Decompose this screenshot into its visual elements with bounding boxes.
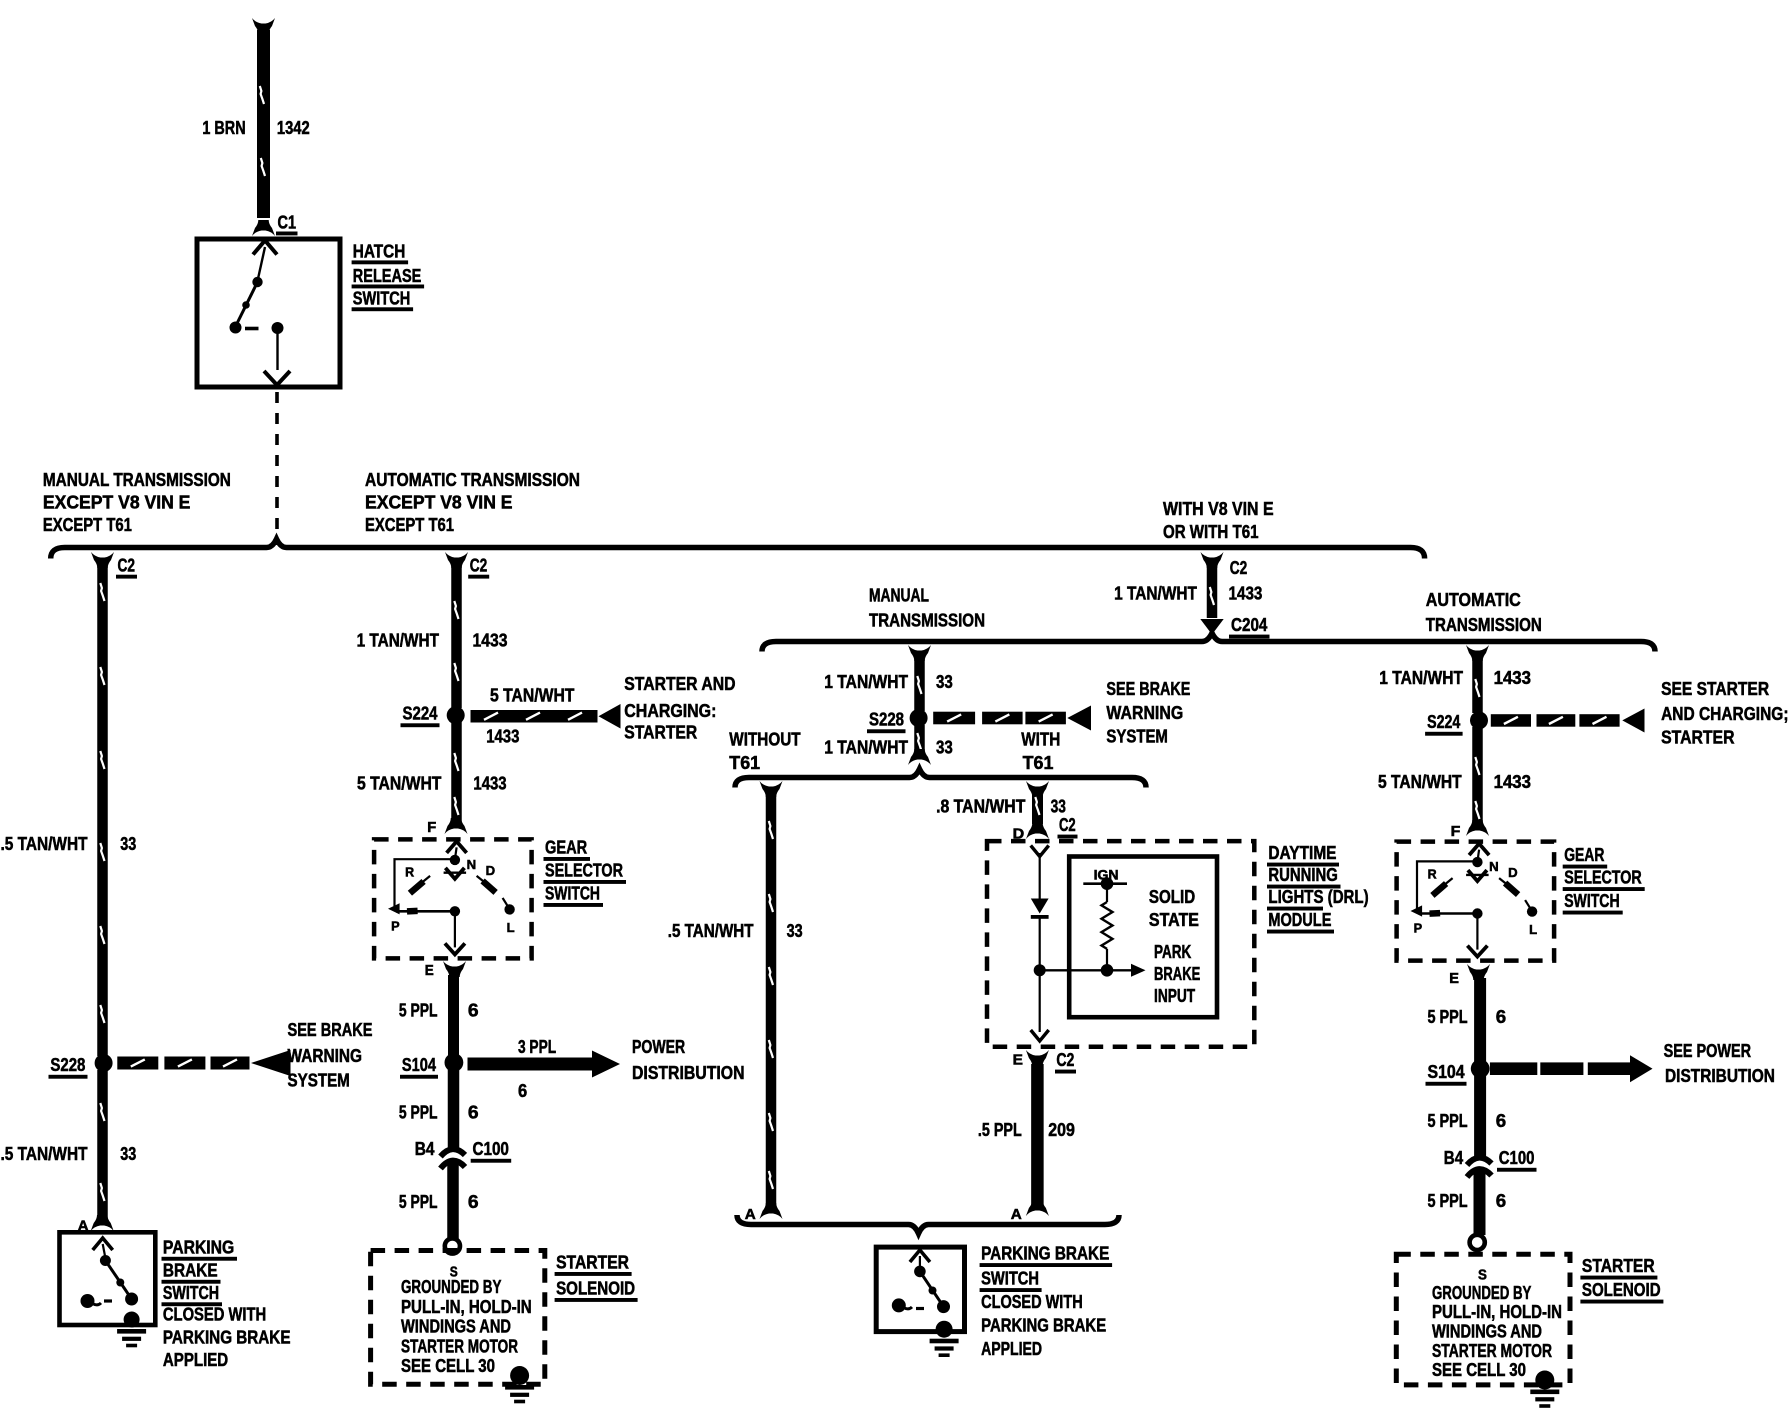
svg-text:EXCEPT T61: EXCEPT T61 [43,514,132,535]
label SEE BRAKE WARNING SYSTEM (middle) [1106,678,1190,747]
svg-text:PARK: PARK [1154,941,1192,962]
svg-text:EXCEPT V8 VIN E: EXCEPT V8 VIN E [43,492,191,513]
wire 5 PPL 6 from gear selector E (right) [1467,964,1490,1063]
svg-text:33: 33 [120,1143,136,1164]
svg-text:SEE BRAKE: SEE BRAKE [1106,678,1190,699]
connector C100 pin B4 (right) [1444,1147,1537,1177]
svg-text:SEE STARTER: SEE STARTER [1661,678,1769,699]
connector C2 at DRL pin D [1058,814,1078,839]
svg-text:S224: S224 [1427,711,1461,732]
svg-text:E: E [425,963,434,979]
svg-text:WARNING: WARNING [288,1045,363,1066]
brace bus without/with T61 [735,769,1146,788]
svg-text:1 TAN/WHT: 1 TAN/WHT [1379,667,1463,688]
svg-text:L: L [1529,922,1537,937]
svg-text:WINDINGS AND: WINDINGS AND [401,1316,511,1337]
svg-text:1433: 1433 [486,726,519,747]
svg-text:EXCEPT T61: EXCEPT T61 [365,514,454,535]
connector C1 [276,212,298,236]
svg-text:1433: 1433 [473,630,508,651]
connector C2 left branch [91,552,137,579]
splice S228 (middle) [867,709,928,734]
svg-text:S104: S104 [1428,1061,1466,1082]
svg-text:F: F [427,820,436,836]
label HATCH RELEASE SWITCH [352,241,425,311]
svg-text:5 TAN/WHT: 5 TAN/WHT [1378,771,1462,792]
terminal ring at starter solenoid S (left) [445,1238,460,1253]
svg-text:WITHOUT: WITHOUT [729,729,800,750]
label GEAR SELECTOR SWITCH (left) [544,837,627,907]
svg-text:GEAR: GEAR [545,837,587,858]
ground at starter solenoid (right) [1530,1371,1559,1408]
svg-text:A: A [1011,1207,1023,1223]
svg-text:1 TAN/WHT: 1 TAN/WHT [824,737,908,758]
label PARKING BRAKE SWITCH CLOSED WITH PARKING BRAKE APPLIED (middle) [980,1243,1113,1360]
svg-text:E: E [1449,971,1459,987]
brace bus transmission options [51,539,1425,559]
label 1 TAN/WHT 33 upper (middle) [824,671,953,692]
svg-text:SOLID: SOLID [1149,886,1195,907]
svg-text:SELECTOR: SELECTOR [545,860,623,881]
label WITH T61 [1021,729,1060,774]
svg-text:CLOSED WITH: CLOSED WITH [163,1304,266,1325]
brace bus manual vs automatic (V8/T61) [762,633,1655,652]
svg-text:S224: S224 [403,703,439,724]
svg-text:1433: 1433 [1229,583,1263,604]
svg-text:MODULE: MODULE [1268,909,1331,930]
label .8 TAN/WHT 33 [936,796,1066,817]
label 5 PPL 6 lower (left) [399,1191,479,1212]
svg-text:MANUAL TRANSMISSION: MANUAL TRANSMISSION [43,469,231,490]
label .5 TAN/WHT 33 lower [1,1143,137,1164]
label POWER DISTRIBUTION [632,1036,745,1083]
svg-text:R: R [1428,867,1438,882]
svg-text:STARTER: STARTER [1582,1255,1655,1276]
svg-text:OR WITH T61: OR WITH T61 [1163,521,1259,542]
svg-text:RELEASE: RELEASE [353,265,422,286]
gear selector switch SW3 (left) [374,839,531,958]
svg-text:C2: C2 [118,555,136,576]
label SEE BRAKE WARNING SYSTEM (left) [288,1019,373,1091]
wire 5 PPL 6 from gear selector E [443,961,466,1057]
wire dashed from hatch release switch to options brace [275,392,279,545]
label .5 TAN/WHT 33 (without T61) [668,920,803,941]
svg-text:DAYTIME: DAYTIME [1268,842,1336,863]
wire 5 PPL 6 middle segment (left) [448,1068,460,1148]
svg-text:33: 33 [936,737,953,758]
svg-text:EXCEPT V8 VIN E: EXCEPT V8 VIN E [365,492,513,513]
connector C204 [1229,614,1270,639]
svg-text:1342: 1342 [277,117,310,138]
svg-text:6: 6 [468,1102,479,1123]
svg-text:5 TAN/WHT: 5 TAN/WHT [357,773,441,794]
label GEAR SELECTOR SWITCH (right) [1563,844,1645,915]
svg-text:C2: C2 [1059,814,1076,835]
label .5 TAN/WHT 33 upper [1,833,137,854]
svg-text:STARTER MOTOR: STARTER MOTOR [401,1336,518,1357]
svg-text:S228: S228 [50,1054,85,1075]
svg-text:SELECTOR: SELECTOR [1564,867,1642,888]
wire .5 TAN/WHT 33 lower segment [91,1070,114,1231]
svg-text:B4: B4 [1444,1147,1464,1168]
wire 1 BRN 1342 feed to hatch release switch [252,18,275,236]
svg-text:.8 TAN/WHT: .8 TAN/WHT [936,796,1025,817]
svg-text:AND CHARGING;: AND CHARGING; [1661,703,1788,724]
svg-text:PULL-IN, HOLD-IN: PULL-IN, HOLD-IN [401,1296,532,1317]
svg-text:STARTER AND: STARTER AND [624,673,735,694]
svg-text:APPLIED: APPLIED [981,1338,1042,1359]
svg-text:SWITCH: SWITCH [981,1268,1039,1289]
label AUTOMATIC TRANSMISSION (bus2) [1426,589,1542,635]
svg-text:SYSTEM: SYSTEM [1106,726,1168,747]
label MANUAL TRANSMISSION EXCEPT V8 VIN E EXCEPT T61 [43,469,231,535]
svg-text:RUNNING: RUNNING [1268,864,1337,885]
svg-text:WARNING: WARNING [1106,702,1183,723]
svg-text:C2: C2 [1230,557,1248,578]
svg-text:R: R [405,864,415,879]
svg-text:1 BRN: 1 BRN [202,117,245,138]
label .5 PPL 209 [978,1119,1075,1140]
svg-text:INPUT: INPUT [1154,985,1195,1006]
connector C2 with V8 VIN E drop [1201,552,1248,578]
svg-text:5 PPL: 5 PPL [399,1191,438,1212]
svg-text:C2: C2 [470,555,488,576]
starter solenoid (left) [371,1251,545,1385]
svg-text:C204: C204 [1231,614,1268,635]
label STARTER SOLENOID (right) [1580,1255,1663,1304]
label STARTER SOLENOID (left) [555,1252,638,1302]
svg-text:WITH: WITH [1021,729,1060,750]
svg-text:SEE BRAKE: SEE BRAKE [288,1019,373,1040]
svg-text:SWITCH: SWITCH [163,1282,219,1303]
svg-text:STARTER: STARTER [624,722,697,743]
wire .5 PPL 209 from DRL to bus4 [1026,1050,1049,1216]
svg-text:PULL-IN, HOLD-IN: PULL-IN, HOLD-IN [1432,1301,1562,1322]
splice S104 (left) [400,1053,463,1079]
label WITHOUT T61 [729,729,800,774]
svg-text:1 TAN/WHT: 1 TAN/WHT [1114,583,1197,604]
connector C2 at DRL pin E [1055,1049,1076,1074]
svg-text:6: 6 [1496,1110,1506,1131]
svg-text:GEAR: GEAR [1564,844,1604,865]
wire 5 TAN/WHT 1433 to gear selector (right) [1466,727,1489,836]
svg-text:C100: C100 [473,1138,509,1159]
wire 5 TAN/WHT 1433 to gear selector [445,722,468,834]
svg-text:SOLENOID: SOLENOID [1582,1279,1661,1300]
svg-text:.5 PPL: .5 PPL [978,1119,1022,1140]
splice S104 (right) [1426,1059,1490,1085]
parking brake switch SW2 (left) [60,1232,156,1347]
svg-text:APPLIED: APPLIED [163,1349,228,1370]
svg-text:N: N [1489,859,1499,874]
svg-text:T61: T61 [729,752,760,773]
svg-text:6: 6 [468,1000,479,1021]
svg-text:D: D [1508,865,1518,880]
wire 5 PPL 6 lower segment (left) [447,1160,459,1239]
svg-text:TRANSMISSION: TRANSMISSION [1426,614,1542,635]
label 5 TAN/WHT 1433 lower (right) [1378,771,1531,792]
label AUTOMATIC TRANSMISSION EXCEPT V8 VIN E EXCEPT T61 [365,469,580,535]
svg-text:T61: T61 [1023,752,1054,773]
svg-text:1433: 1433 [1494,667,1531,688]
svg-text:B4: B4 [415,1138,436,1159]
svg-text:AUTOMATIC TRANSMISSION: AUTOMATIC TRANSMISSION [365,469,580,490]
svg-text:5 PPL: 5 PPL [1428,1190,1468,1211]
svg-text:STARTER: STARTER [1661,727,1734,748]
wire 5 PPL 6 lower segment (right) [1474,1168,1486,1235]
gear selector switch SW5 (right) [1397,842,1555,961]
svg-text:C100: C100 [1499,1147,1535,1168]
label 1 TAN/WHT 33 lower (middle) [824,737,953,758]
brace bus to parking brake switch (middle) [737,1215,1119,1234]
svg-text:C1: C1 [278,212,297,233]
svg-text:STARTER MOTOR: STARTER MOTOR [1432,1340,1552,1361]
svg-text:SWITCH: SWITCH [353,288,411,309]
starter solenoid (right) [1396,1254,1570,1385]
label WITH V8 VIN E OR WITH T61 [1163,498,1274,542]
svg-text:1 TAN/WHT: 1 TAN/WHT [824,671,908,692]
wire to brake warning system (left) [117,1050,290,1076]
svg-text:E: E [1013,1053,1024,1069]
label STARTER AND CHARGING: STARTER [624,673,735,743]
svg-text:33: 33 [787,920,803,941]
svg-text:DISTRIBUTION: DISTRIBUTION [1665,1065,1775,1086]
svg-text:P: P [391,918,400,933]
label 5 PPL 6 middle (left) [399,1102,479,1123]
parking brake switch SW4 (middle) [876,1247,964,1357]
label 5 PPL 6 upper (right) [1428,1006,1507,1027]
svg-text:5 PPL: 5 PPL [399,1102,438,1123]
label 5 PPL 6 middle (right) [1428,1110,1507,1131]
label 5 TAN/WHT 1433 lower [357,773,507,794]
svg-text:3 PPL: 3 PPL [518,1036,556,1057]
svg-text:1433: 1433 [1494,771,1531,792]
svg-text:STATE: STATE [1149,909,1199,930]
svg-text:LIGHTS (DRL): LIGHTS (DRL) [1268,886,1368,907]
svg-text:GROUNDED BY: GROUNDED BY [1432,1282,1531,1303]
label SEE POWER DISTRIBUTION [1664,1040,1775,1086]
svg-text:L: L [507,920,515,935]
label 5 PPL 6 lower (right) [1428,1190,1507,1211]
svg-text:SEE CELL 30: SEE CELL 30 [1432,1359,1526,1380]
svg-text:PARKING BRAKE: PARKING BRAKE [981,1315,1106,1336]
svg-text:POWER: POWER [632,1036,685,1057]
label 1 TAN/WHT 1433 (right) [1379,667,1531,688]
wire 3 PPL 6 arrow to power distribution [468,1051,621,1078]
wire dashed arrow to power distribution (right) [1490,1055,1653,1082]
svg-text:1433: 1433 [473,773,506,794]
svg-text:CHARGING:: CHARGING: [624,700,716,721]
svg-text:HATCH: HATCH [353,241,406,262]
svg-text:D: D [486,863,496,878]
wire .5 TAN/WHT 33 upper segment [97,566,108,1056]
svg-text:SEE POWER: SEE POWER [1664,1040,1752,1061]
svg-text:.5 TAN/WHT: .5 TAN/WHT [1,833,88,854]
wire 1 TAN/WHT 1433 segment [451,566,462,708]
svg-text:DISTRIBUTION: DISTRIBUTION [632,1062,745,1083]
svg-text:.5 TAN/WHT: .5 TAN/WHT [668,920,754,941]
wire .8 TAN/WHT 33 with T61 branch [1026,781,1049,839]
svg-text:5 PPL: 5 PPL [1428,1006,1468,1027]
svg-text:BRAKE: BRAKE [163,1260,218,1281]
svg-text:WINDINGS AND: WINDINGS AND [1432,1321,1542,1342]
svg-text:TRANSMISSION: TRANSMISSION [869,610,985,631]
label MANUAL TRANSMISSION (bus2) [869,585,985,631]
svg-text:33: 33 [936,671,953,692]
svg-text:A: A [745,1207,757,1223]
svg-text:1 TAN/WHT: 1 TAN/WHT [357,630,439,651]
ground at starter solenoid (left) [505,1366,534,1403]
terminal ring at starter solenoid S (right) [1470,1235,1485,1250]
svg-text:MANUAL: MANUAL [869,585,929,606]
label 1 TAN/WHT 1433 [357,630,508,651]
svg-text:S228: S228 [869,709,904,730]
svg-text:5 PPL: 5 PPL [399,1000,438,1021]
wire to starter and charging (right) [1491,709,1645,733]
svg-text:CLOSED WITH: CLOSED WITH [981,1291,1083,1312]
wire .5 TAN/WHT 33 without T61 branch [760,781,783,1219]
svg-text:.5 TAN/WHT: .5 TAN/WHT [1,1143,88,1164]
label DAYTIME RUNNING LIGHTS (DRL) MODULE [1267,842,1369,934]
svg-text:AUTOMATIC: AUTOMATIC [1426,589,1521,610]
label SEE STARTER AND CHARGING; STARTER [1661,678,1788,748]
label PARKING BRAKE SWITCH CLOSED WITH PARKING BRAKE APPLIED (left) [162,1237,291,1371]
wire 1 TAN/WHT 33 lower (middle) [908,725,931,765]
svg-text:WITH V8 VIN E: WITH V8 VIN E [1163,498,1274,519]
svg-text:6: 6 [1496,1190,1506,1211]
svg-text:PARKING: PARKING [163,1237,234,1258]
daytime running lights DRL module U1 [987,841,1254,1047]
svg-text:SWITCH: SWITCH [545,883,600,904]
hatch release switch SW1 [197,239,340,387]
wire 5 PPL 6 middle segment (right) [1474,1074,1486,1156]
wire 1 TAN/WHT 1433 drop to C204 [1200,566,1223,635]
svg-text:6: 6 [1496,1006,1506,1027]
label 5 TAN/WHT above and 1433 below splice wire [486,685,574,747]
svg-text:P: P [1414,921,1423,936]
svg-text:6: 6 [468,1191,479,1212]
svg-text:GROUNDED BY: GROUNDED BY [401,1276,501,1297]
svg-text:6: 6 [518,1080,527,1101]
svg-text:C2: C2 [1056,1049,1074,1070]
svg-text:5 TAN/WHT: 5 TAN/WHT [490,685,574,706]
svg-text:SYSTEM: SYSTEM [288,1070,350,1091]
svg-text:F: F [1451,824,1461,840]
wire 1 TAN/WHT 1433 from bus2 (right) [1466,645,1489,713]
connector C2 automatic branch [445,552,489,579]
svg-text:5 PPL: 5 PPL [1428,1110,1468,1131]
svg-text:PARKING BRAKE: PARKING BRAKE [981,1243,1109,1264]
svg-text:STARTER: STARTER [556,1252,629,1273]
splice S228 [49,1054,113,1079]
label 5 PPL 6 upper (left) [399,1000,479,1021]
wire to brake warning system (middle) [933,706,1091,731]
wire 5 TAN/WHT 1433 to starter and charging [471,704,621,729]
connector C100 pin B4 (left) [415,1138,512,1169]
splice S224 (left) [401,703,465,728]
svg-text:SWITCH: SWITCH [1564,890,1619,911]
svg-text:PARKING BRAKE: PARKING BRAKE [163,1327,291,1348]
svg-text:BRAKE: BRAKE [1154,963,1200,984]
svg-text:N: N [467,857,477,872]
svg-text:SOLENOID: SOLENOID [556,1278,635,1299]
svg-text:209: 209 [1048,1119,1075,1140]
svg-text:SEE CELL 30: SEE CELL 30 [401,1355,495,1376]
splice S224 (right) [1425,711,1488,736]
svg-text:33: 33 [120,833,136,854]
svg-text:S104: S104 [402,1054,437,1075]
wire 1 TAN/WHT 33 from bus2 [908,645,931,711]
